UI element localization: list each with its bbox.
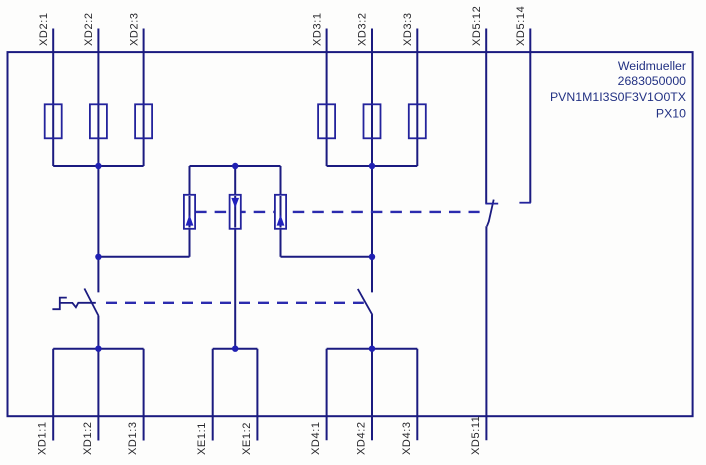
wire: terminal lead XD3:1 (top to XD3 bus)	[326, 29, 328, 167]
svg-text:XD1:2: XD1:2	[82, 421, 94, 455]
manufacturer text block	[550, 59, 686, 120]
wire: XD2 bus bar	[53, 165, 143, 167]
fuse body on XD2:2	[90, 104, 107, 138]
svg-text:XD5:11: XD5:11	[470, 416, 482, 455]
svg-text:PX10: PX10	[656, 106, 686, 120]
wire: terminal lead XD4:3	[416, 349, 418, 441]
wire: arrester group top bus	[190, 165, 281, 167]
fuse body on XD3:3	[409, 104, 426, 138]
svg-text:XD2:2: XD2:2	[83, 12, 95, 46]
wire: XD3 bus bar	[327, 165, 418, 167]
svg-text:XD4:2: XD4:2	[356, 421, 368, 455]
svg-text:PVN1M1I3S0F3V1O0TX: PVN1M1I3S0F3V1O0TX	[550, 90, 686, 104]
junction at XE1 bus / middle arrester drop	[232, 346, 238, 352]
wire: XD4 bus bar	[327, 348, 418, 350]
svg-text:XE1:1: XE1:1	[196, 422, 208, 455]
mechanical link (dashed) between arresters and XD5 contact	[195, 211, 480, 213]
svg-text:XD3:1: XD3:1	[311, 12, 323, 46]
fixed contact foot XD5:14	[519, 202, 531, 204]
wire: terminal lead XD1:3	[143, 349, 145, 441]
wire: terminal lead XD2:2 (top, through fuse and dots, to switch)	[97, 29, 99, 293]
wire: XE1 bus bar	[213, 348, 258, 350]
svg-text:XD1:3: XD1:3	[127, 421, 139, 455]
junction at XD3:2 / right arrester connector	[369, 254, 375, 260]
wire: right arrester drop	[280, 166, 282, 257]
fuse body on XD2:1	[45, 104, 62, 138]
fuse body on XD3:2	[364, 104, 381, 138]
junction at XD4 bus / XD4:2	[369, 346, 375, 352]
wire: terminal lead XD3:3 (top to XD3 bus)	[416, 29, 418, 167]
wire: XD5:11 lead from blade to bottom	[485, 226, 487, 440]
wire: XD4:2 lower segment to XD4 bus	[371, 315, 373, 441]
fuse body on XD3:1	[318, 104, 335, 138]
surge arrester left (varistor, arrow up)	[184, 195, 195, 229]
wire: XD1 bus bar	[53, 348, 143, 350]
wire: terminal lead XD2:3 (top to XD2 bus)	[143, 29, 145, 167]
svg-text:XD2:1: XD2:1	[38, 12, 50, 46]
wire: terminal lead XD3:2 (top, through fuse and dots, to switch)	[371, 29, 373, 293]
thermal disconnect switch on XD2:2 line	[52, 289, 98, 317]
junction at arrester bus / middle arrester	[232, 163, 238, 169]
svg-text:XD3:2: XD3:2	[357, 12, 369, 46]
wire: terminal lead XE1:2	[256, 349, 258, 441]
svg-text:XD2:3: XD2:3	[128, 12, 140, 46]
changeover contact blade XD5	[487, 200, 494, 227]
svg-text:XD4:1: XD4:1	[310, 421, 322, 455]
svg-text:2683050000: 2683050000	[618, 74, 687, 88]
surge arrester middle (spark gap, arrow down)	[230, 195, 241, 229]
junction at XD1 bus / XD1:2	[95, 346, 101, 352]
mechanical link (dashed) lower row to XD4:2 contact	[106, 302, 364, 304]
svg-text:XD4:3: XD4:3	[401, 421, 413, 455]
fixed contact foot XD5:12	[485, 203, 498, 205]
svg-text:XD3:3: XD3:3	[402, 12, 414, 46]
svg-text:XD5:14: XD5:14	[515, 6, 527, 46]
wire: terminal lead XE1:1	[212, 349, 214, 441]
junction at XD2 bus / XD2:2	[95, 163, 101, 169]
wire: left arrester drop	[189, 166, 191, 257]
wire: connector right arrester to XD3:2 node	[281, 256, 373, 258]
wire: terminal lead XD1:1	[52, 349, 54, 441]
junction at XD3 bus / XD3:2	[369, 163, 375, 169]
svg-text:XD5:12: XD5:12	[471, 6, 483, 46]
wire: terminal lead XD5:14 (top to NO contact)	[529, 29, 531, 203]
svg-text:XE1:2: XE1:2	[241, 422, 253, 455]
wire: middle arrester drop (to XE1 bus)	[234, 166, 236, 349]
wire: connector left arrester to XD2:2 node	[98, 256, 189, 258]
wire: terminal lead XD4:1	[326, 349, 328, 441]
wire: terminal lead XD5:12 (top to NC contact)	[485, 29, 487, 204]
svg-text:Weidmueller: Weidmueller	[618, 59, 686, 73]
wire: terminal lead XD2:1 (top to XD2 bus)	[52, 29, 54, 167]
drawing frame	[8, 52, 693, 416]
surge arrester right (varistor, arrow up)	[275, 195, 286, 229]
disconnect switch on XD3:2 / XD4:2 line	[358, 289, 373, 315]
junction at XD2:2 / left arrester connector	[95, 254, 101, 260]
svg-text:XD1:1: XD1:1	[37, 421, 49, 455]
fuse body on XD2:3	[135, 104, 152, 138]
wire: XD2:2 lower segment to XD1 bus	[97, 316, 99, 441]
